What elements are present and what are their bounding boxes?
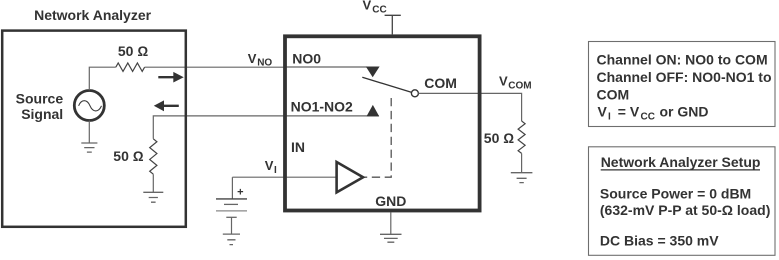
Network Analyzer box xyxy=(2,31,186,227)
wire source bottom to ground xyxy=(88,121,90,143)
svg-text:Signal: Signal xyxy=(21,106,63,122)
wire source top to R1 xyxy=(89,67,116,90)
ground (source) xyxy=(81,143,97,152)
wire R1 to NO0 pin (node VNO) xyxy=(145,66,285,68)
switch lever xyxy=(362,77,411,92)
svg-text:Network Analyzer Setup: Network Analyzer Setup xyxy=(601,154,761,170)
svg-text:+: + xyxy=(237,186,243,198)
svg-text:(632-mV P-P at 50-Ω load): (632-mV P-P at 50-Ω load) xyxy=(600,202,770,218)
resistor R3 50Ω (load) xyxy=(518,121,525,153)
svg-text:50 Ω: 50 Ω xyxy=(118,43,148,59)
svg-text:GND: GND xyxy=(375,193,406,209)
svg-text:Channel OFF: NO0-NO1 to: Channel OFF: NO0-NO1 to xyxy=(597,69,772,85)
svg-text:50 Ω: 50 Ω xyxy=(113,148,143,164)
switch contact NO0 (triangle) xyxy=(366,67,380,78)
switch pole (COM) circle xyxy=(411,90,418,97)
svg-text:Source: Source xyxy=(16,91,64,107)
svg-text:Channel ON: NO0 to COM: Channel ON: NO0 to COM xyxy=(597,52,768,68)
wire NO1-NO2 pin to contact xyxy=(285,115,379,117)
wire COM to load (node VCOM) xyxy=(418,93,521,121)
annotation box: channel states xyxy=(589,42,776,127)
svg-text:50 Ω: 50 Ω xyxy=(484,130,514,146)
switch contact NO1-NO2 (triangle) xyxy=(367,105,380,117)
svg-text:= V: = V xyxy=(618,104,640,120)
svg-text:NO1-NO2: NO1-NO2 xyxy=(291,98,353,114)
svg-text:V: V xyxy=(598,104,608,120)
arrow return signal xyxy=(154,100,164,111)
svg-text:or GND: or GND xyxy=(660,104,709,120)
wire R2 to ground xyxy=(152,174,154,192)
svg-text:CC: CC xyxy=(372,5,386,16)
wire R3 to ground xyxy=(521,153,523,172)
battery V+ plates xyxy=(216,198,247,200)
svg-text:V: V xyxy=(265,158,274,173)
resistor R1 50Ω (series) xyxy=(116,63,145,71)
ground (battery) xyxy=(223,234,240,245)
power VCC rail symbol xyxy=(385,15,401,34)
svg-text:I: I xyxy=(274,165,277,176)
arrow forward signal xyxy=(158,76,175,78)
svg-text:CC: CC xyxy=(641,112,655,123)
wire VI to buffer input xyxy=(232,176,336,178)
svg-text:DC Bias = 350 mV: DC Bias = 350 mV xyxy=(600,232,719,248)
voltage source V1 (Source Signal) xyxy=(74,91,104,121)
svg-text:I: I xyxy=(608,112,611,123)
ground (load) xyxy=(511,173,533,183)
wire NO0 pin to contact xyxy=(285,66,367,68)
dashed control line buffer to switch xyxy=(364,98,391,177)
svg-text:Source Power = 0 dBM: Source Power = 0 dBM xyxy=(600,186,751,202)
svg-text:COM: COM xyxy=(597,86,630,102)
svg-text:COM: COM xyxy=(424,75,457,91)
svg-text:NO0: NO0 xyxy=(292,51,321,67)
wire GND pin to ground xyxy=(390,212,392,234)
svg-text:V: V xyxy=(363,0,372,12)
DUT box (switch IC) xyxy=(285,36,480,210)
svg-text:V: V xyxy=(499,74,508,89)
svg-text:COM: COM xyxy=(508,81,531,92)
buffer driver U1 xyxy=(337,162,364,192)
ground (GND pin) xyxy=(380,234,402,242)
battery V+ (VI bias) wire from IN wire xyxy=(231,177,233,198)
svg-text:NO: NO xyxy=(257,58,272,69)
wire NO1-NO2 return to R2 xyxy=(153,116,285,139)
svg-text:IN: IN xyxy=(291,139,305,155)
svg-text:Network Analyzer: Network Analyzer xyxy=(34,7,152,23)
resistor R2 50Ω (termination) xyxy=(150,139,157,174)
wire battery to ground xyxy=(231,217,233,234)
ground (termination) xyxy=(143,192,163,202)
annotation box: network analyzer setup xyxy=(589,147,776,256)
svg-text:V: V xyxy=(248,51,257,66)
